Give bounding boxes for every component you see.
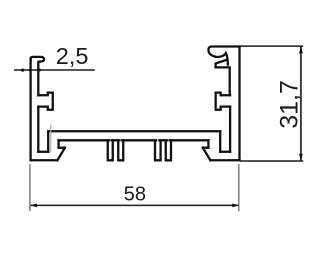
rib box C (155, 140, 161, 160)
right chin ledge (203, 147, 209, 149)
bottom left chamfer (57, 148, 65, 161)
left wall inner line lower (37, 107, 39, 152)
faint reference line (50, 125, 52, 153)
dim line 58 (30, 204, 240, 206)
dim line 31,7 (300, 46, 302, 161)
svg-text:58: 58 (124, 184, 146, 206)
arrow 31,7 top (299, 47, 303, 54)
right wall inner line lower (229, 107, 231, 152)
right chin vertical (207, 140, 209, 147)
left wall inner line upper (37, 62, 39, 95)
ext line 58 left (29, 164, 31, 211)
left chin vertical (57, 140, 59, 147)
bottom right chamfer (203, 148, 211, 161)
ext line 58 right (238, 164, 240, 211)
arrow 58 right (232, 204, 239, 208)
dim dot 2,5 right (38, 69, 41, 72)
rib box D (166, 140, 171, 160)
bottom line right (210, 159, 239, 161)
arrow 58 left (30, 204, 37, 208)
right wall outer line (238, 47, 240, 161)
arrow 31,7 bottom (299, 154, 303, 161)
left wall snap hook (38, 93, 52, 110)
ext line 31,7 bottom (240, 160, 303, 162)
svg-text:2,5: 2,5 (56, 43, 89, 69)
web top line (48, 130, 220, 132)
dim dot 2,5 left (21, 69, 24, 72)
rib box B (118, 140, 123, 160)
left web leg (47, 131, 49, 152)
bottom line left (31, 159, 58, 161)
dim line 2,5 (14, 69, 95, 71)
left U channel bottom (38, 151, 48, 153)
ext line 31,7 top (240, 45, 303, 47)
right wall curl (2-shape) (208, 47, 239, 65)
web bottom line segments (59, 139, 209, 141)
right U channel bottom (220, 151, 230, 153)
left wall outer line (29, 58, 31, 160)
right wall curl foot (216, 60, 230, 95)
right wall snap hook (216, 93, 230, 110)
left chin ledge (59, 147, 65, 149)
right web leg (219, 131, 221, 152)
left wall top hook (31, 57, 45, 62)
svg-text:31,7: 31,7 (275, 80, 303, 129)
rib box A (108, 140, 113, 160)
